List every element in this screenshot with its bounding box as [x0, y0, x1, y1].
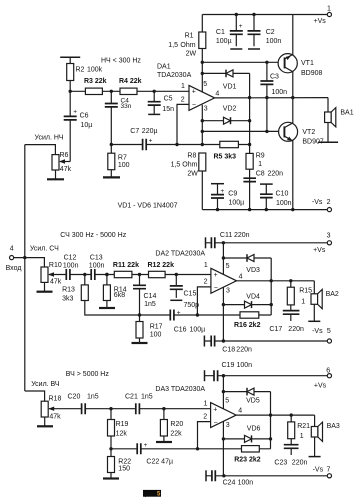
- resistor R15: [290, 281, 292, 311]
- terminal 6: [327, 374, 331, 378]
- node pin2 ch3: [196, 447, 199, 450]
- svg-text:-Vs: -Vs: [312, 328, 323, 335]
- diode VD4: [222, 303, 225, 306]
- svg-text:C12: C12: [64, 255, 77, 262]
- svg-text:C9: C9: [228, 190, 237, 197]
- svg-text:12k: 12k: [116, 430, 128, 437]
- svg-text:100n: 100n: [276, 200, 292, 207]
- svg-text:C10: C10: [276, 191, 289, 198]
- wire main LF: [70, 90, 189, 92]
- speaker BA1: [327, 98, 329, 143]
- wire pin5 ch3: [222, 376, 224, 409]
- wire pin3 vertical: [201, 105, 203, 145]
- svg-text:100n: 100n: [63, 262, 79, 269]
- svg-text:VT2: VT2: [302, 129, 315, 136]
- svg-text:VD5: VD5: [246, 398, 260, 405]
- node pin2 ch2: [196, 313, 199, 316]
- svg-text:R13: R13: [62, 286, 75, 293]
- svg-text:2: 2: [181, 96, 185, 103]
- node pin5 branch VT1 base: [201, 61, 204, 64]
- svg-text:1,5: 1,5: [168, 42, 178, 49]
- wire wiper up: [69, 120, 71, 162]
- wire output DA3: [236, 414, 314, 416]
- wire pin5 ch2: [222, 243, 224, 275]
- svg-text:R1: R1: [185, 32, 194, 39]
- capacitor C8: [243, 178, 256, 181]
- svg-text:C11: C11: [220, 232, 232, 239]
- svg-text:R18: R18: [49, 396, 62, 403]
- node C15 top: [175, 273, 178, 276]
- ground R6: [55, 170, 57, 179]
- svg-text:10µ: 10µ: [81, 122, 93, 129]
- svg-text:НЧ < 300 Hz: НЧ < 300 Hz: [101, 57, 141, 64]
- resistor R14: [105, 273, 108, 276]
- top rail ch2 with C11: [205, 237, 207, 248]
- svg-text:C8: C8: [256, 170, 265, 177]
- svg-text:+Vs: +Vs: [313, 247, 326, 254]
- svg-text:2W: 2W: [186, 51, 197, 58]
- svg-text:VD4: VD4: [246, 294, 260, 301]
- svg-text:4: 4: [215, 91, 219, 98]
- svg-text:VD1 - VD6 1N4007: VD1 - VD6 1N4007: [118, 202, 178, 209]
- potentiometer R18: [41, 401, 48, 417]
- svg-text:R15: R15: [299, 288, 312, 295]
- terminal 4 input: [10, 256, 14, 260]
- node C14 top: [138, 273, 141, 276]
- wire VT2 base row: [202, 130, 283, 132]
- svg-text:1n5: 1n5: [144, 301, 156, 308]
- svg-text:VD1: VD1: [223, 83, 237, 90]
- svg-text:22k: 22k: [170, 430, 182, 437]
- capacitor C21: [136, 403, 140, 414]
- svg-text:VD6: VD6: [247, 426, 261, 433]
- svg-text:R16 2k2: R16 2k2: [234, 322, 261, 329]
- resistor R23: [242, 446, 260, 452]
- svg-text:+: +: [213, 407, 217, 414]
- capacitor C17: [283, 311, 300, 315]
- svg-text:-Vs: -Vs: [312, 199, 323, 206]
- resistor R19: [109, 407, 112, 410]
- op-amp DA3: [211, 403, 237, 428]
- svg-text:C15: C15: [184, 291, 197, 298]
- svg-text:7: 7: [327, 467, 331, 474]
- node pin5 branch VD1: [201, 72, 204, 75]
- resistor R2: [60, 56, 80, 58]
- svg-text:Усил. ВЧ: Усил. ВЧ: [31, 381, 60, 388]
- svg-text:+: +: [177, 309, 181, 316]
- svg-text:+: +: [149, 138, 153, 145]
- resistor R20: [162, 407, 165, 410]
- svg-text:6k8: 6k8: [114, 292, 125, 299]
- svg-text:+Vs: +Vs: [314, 18, 327, 25]
- svg-text:R8: R8: [187, 153, 196, 160]
- capacitor C23: [284, 445, 299, 449]
- transistor VT2: [279, 122, 298, 141]
- svg-text:DA2 TDA2030A: DA2 TDA2030A: [155, 251, 205, 258]
- diode VD6: [222, 437, 225, 440]
- svg-text:C22 47µ: C22 47µ: [146, 458, 173, 465]
- svg-text:−: −: [214, 419, 218, 426]
- svg-text:33n: 33n: [121, 103, 132, 110]
- svg-text:220n: 220n: [234, 232, 250, 239]
- resistor R8: [201, 171, 203, 210]
- wire pin5 vertical + R1: [201, 15, 203, 92]
- svg-text:R11 22k: R11 22k: [113, 262, 139, 269]
- svg-text:C1: C1: [216, 29, 225, 36]
- svg-text:+: +: [144, 442, 148, 449]
- svg-text:+: +: [220, 188, 224, 195]
- wire output DA2: [237, 280, 315, 282]
- figure badge рис.5: [143, 490, 161, 497]
- svg-text:1: 1: [204, 262, 208, 269]
- diode VD2: [202, 120, 249, 122]
- svg-text:Вход: Вход: [6, 265, 22, 272]
- svg-text:3: 3: [226, 288, 230, 295]
- svg-text:C2: C2: [266, 29, 275, 36]
- wire VD5 corner down: [270, 392, 272, 449]
- svg-text:C16: C16: [174, 327, 187, 334]
- svg-text:+: +: [239, 23, 243, 30]
- wire bottom rail ch1: [202, 209, 327, 211]
- terminal 7: [327, 474, 331, 478]
- resistor R4: [120, 88, 137, 94]
- wire lower ch2: [140, 314, 272, 316]
- svg-text:47k: 47k: [60, 166, 72, 173]
- svg-text:5: 5: [225, 397, 229, 404]
- op-amp DA2: [211, 268, 237, 293]
- svg-text:Ohm: Ohm: [180, 42, 195, 49]
- wire lower HF: [111, 448, 271, 450]
- svg-text:C5: C5: [164, 95, 173, 102]
- resistor R5: [220, 141, 239, 147]
- node C5 top: [153, 90, 156, 93]
- resistor R7: [110, 145, 112, 178]
- capacitor C9: [211, 183, 224, 185]
- svg-text:4: 4: [238, 408, 242, 415]
- svg-text:R22: R22: [118, 458, 131, 465]
- svg-text:4: 4: [239, 273, 243, 280]
- svg-text:+: +: [73, 108, 77, 115]
- wire VT1 base: [202, 61, 283, 63]
- speaker BA2: [313, 281, 315, 322]
- svg-text:R2: R2: [76, 67, 85, 74]
- svg-text:VD2: VD2: [223, 105, 237, 112]
- svg-text:C23: C23: [274, 460, 287, 467]
- terminal 5: [327, 339, 331, 343]
- terminal 2: [327, 208, 331, 212]
- capacitor C20: [82, 403, 86, 414]
- svg-text:220n: 220n: [268, 170, 284, 177]
- svg-text:1: 1: [204, 400, 208, 407]
- svg-text:ВЧ > 5000 Hz: ВЧ > 5000 Hz: [66, 371, 110, 378]
- svg-text:R21: R21: [297, 423, 310, 430]
- capacitor C5: [153, 91, 155, 114]
- svg-text:100: 100: [118, 162, 130, 169]
- svg-text:1,5 Ohm: 1,5 Ohm: [171, 162, 198, 169]
- potentiometer R10: [41, 267, 48, 282]
- potentiometer R6: [52, 155, 59, 170]
- svg-text:+: +: [214, 272, 218, 279]
- wire bus to R18: [25, 391, 45, 401]
- svg-text:100n: 100n: [89, 262, 105, 269]
- svg-text:220µ: 220µ: [142, 128, 158, 135]
- svg-text:R3 22k: R3 22k: [84, 78, 107, 85]
- svg-text:47k: 47k: [49, 413, 61, 420]
- svg-text:+: +: [192, 89, 196, 96]
- capacitor C14: [139, 275, 141, 316]
- top rail ch3 with C19: [204, 370, 206, 381]
- resistor R22: [110, 449, 112, 479]
- speaker BA3: [314, 415, 316, 457]
- terminal 3: [327, 241, 331, 245]
- svg-text:R5 3k3: R5 3k3: [214, 154, 237, 161]
- svg-text:3: 3: [226, 422, 230, 429]
- resistor R9: [246, 153, 253, 169]
- svg-text:100µ: 100µ: [190, 327, 206, 334]
- svg-text:Усил. НЧ: Усил. НЧ: [35, 134, 64, 141]
- resistor R11: [114, 271, 132, 277]
- svg-text:DA3 TDA2030A: DA3 TDA2030A: [155, 386, 205, 393]
- resistor R12: [149, 271, 166, 277]
- capacitor C12: [66, 269, 70, 280]
- svg-text:2: 2: [204, 279, 208, 286]
- svg-text:5: 5: [203, 81, 207, 88]
- svg-text:TDA2030A: TDA2030A: [157, 72, 192, 79]
- bottom rail ch3 with C24: [205, 470, 207, 481]
- wire input bus vertical: [24, 145, 26, 391]
- capacitor C16: [170, 310, 174, 321]
- svg-text:−: −: [192, 102, 196, 109]
- svg-text:R17: R17: [150, 324, 163, 331]
- svg-text:4: 4: [10, 245, 14, 252]
- svg-text:R12 22k: R12 22k: [148, 262, 175, 269]
- wire main HF: [66, 408, 211, 410]
- wire usil NCh horizontal to R6: [25, 145, 56, 155]
- capacitor C7: [143, 139, 147, 150]
- capacitor C1: [235, 13, 238, 16]
- resistor R13: [85, 275, 140, 316]
- svg-text:C18: C18: [222, 347, 235, 354]
- svg-text:C19: C19: [222, 362, 235, 369]
- svg-text:100n: 100n: [237, 362, 253, 369]
- svg-text:R4 22k: R4 22k: [119, 78, 142, 85]
- svg-text:VD3: VD3: [246, 267, 260, 274]
- svg-text:BD908: BD908: [301, 70, 323, 77]
- svg-text:C20: C20: [68, 394, 81, 401]
- svg-text:R23 2k2: R23 2k2: [234, 456, 261, 463]
- svg-text:220n: 220n: [236, 347, 252, 354]
- svg-text:5: 5: [226, 263, 230, 270]
- svg-text:100: 100: [150, 332, 162, 339]
- wire main MF: [70, 274, 211, 276]
- svg-text:220n: 220n: [292, 460, 308, 467]
- svg-text:C21: C21: [125, 394, 138, 401]
- svg-text:VT1: VT1: [301, 60, 314, 67]
- capacitor C22: [137, 443, 141, 454]
- wire VD3 corner down: [270, 258, 272, 315]
- svg-text:100k: 100k: [87, 67, 103, 74]
- capacitor C15: [175, 275, 177, 298]
- svg-text:220n: 220n: [288, 326, 304, 333]
- terminal 1: [327, 12, 331, 16]
- svg-text:C17: C17: [269, 326, 282, 333]
- svg-text:1n5: 1n5: [141, 394, 153, 401]
- wire feedback row: [111, 144, 249, 146]
- svg-text:Усил. СЧ: Усил. СЧ: [30, 245, 59, 252]
- svg-text:рис.5: рис.5: [145, 492, 161, 498]
- capacitor C4: [110, 91, 112, 144]
- wire output DA1: [215, 97, 328, 99]
- svg-text:C3: C3: [270, 73, 279, 80]
- wire input to bus: [14, 258, 45, 267]
- svg-text:BA1: BA1: [340, 110, 353, 117]
- node lower wire ch2: [138, 313, 141, 316]
- svg-text:47k: 47k: [50, 278, 62, 285]
- svg-text:3k3: 3k3: [62, 296, 73, 303]
- svg-text:6: 6: [326, 367, 330, 374]
- diode VD3: [222, 256, 225, 259]
- svg-text:R6: R6: [60, 152, 69, 159]
- svg-text:100µ: 100µ: [216, 38, 232, 45]
- svg-text:100µ: 100µ: [229, 199, 245, 206]
- svg-text:C7: C7: [130, 128, 139, 135]
- node main LF wire: [69, 90, 72, 93]
- resistor R21: [290, 415, 292, 445]
- capacitor C3: [266, 62, 268, 131]
- svg-text:100n: 100n: [266, 38, 282, 45]
- svg-text:1: 1: [300, 433, 304, 440]
- resistor R16: [240, 312, 259, 318]
- svg-text:100n: 100n: [238, 480, 254, 487]
- svg-text:R19: R19: [116, 421, 129, 428]
- resistor R17: [139, 315, 141, 343]
- svg-text:C14: C14: [144, 293, 157, 300]
- svg-text:2: 2: [203, 414, 207, 421]
- wire top rail: [202, 14, 327, 16]
- svg-text:DA1: DA1: [157, 63, 171, 70]
- node C4 top: [110, 90, 113, 93]
- transistor VT1: [278, 54, 297, 73]
- op-amp DA1: [189, 85, 215, 110]
- svg-text:3: 3: [327, 233, 331, 240]
- bottom rail ch2 with C18: [203, 336, 205, 347]
- capacitor C2: [252, 13, 255, 16]
- diode VD1: [202, 72, 249, 74]
- wire VD1 right corner down: [249, 73, 251, 209]
- svg-text:2W: 2W: [187, 170, 198, 177]
- svg-text:C24: C24: [223, 480, 236, 487]
- svg-text:100n: 100n: [272, 89, 288, 96]
- svg-text:R7: R7: [118, 155, 127, 162]
- svg-text:СЧ 300 Hz - 5000 Hz: СЧ 300 Hz - 5000 Hz: [60, 232, 126, 239]
- resistor R3: [85, 88, 102, 94]
- wire pin3 ch3: [222, 422, 224, 476]
- svg-text:150: 150: [118, 466, 130, 473]
- svg-text:1: 1: [301, 299, 305, 306]
- svg-text:R20: R20: [170, 421, 183, 428]
- ground R18: [44, 417, 46, 426]
- svg-text:BA2: BA2: [326, 291, 339, 298]
- svg-text:BA3: BA3: [327, 423, 340, 430]
- svg-text:R10: R10: [49, 262, 62, 269]
- svg-text:1: 1: [181, 83, 185, 90]
- svg-text:−: −: [214, 285, 218, 292]
- svg-text:R9: R9: [256, 153, 265, 160]
- svg-text:2: 2: [327, 199, 331, 206]
- svg-text:C6: C6: [80, 112, 89, 119]
- resistor R1: [199, 32, 206, 49]
- svg-text:1: 1: [327, 5, 331, 12]
- capacitor C10: [260, 183, 273, 185]
- svg-text:3: 3: [204, 105, 208, 112]
- svg-text:-Vs: -Vs: [313, 467, 324, 474]
- svg-text:5: 5: [327, 328, 331, 335]
- svg-text:C13: C13: [90, 255, 103, 262]
- diode VD5: [222, 390, 225, 393]
- capacitor C13: [91, 269, 95, 280]
- wire pin2 to feedback: [177, 104, 189, 144]
- svg-text:15n: 15n: [162, 106, 174, 113]
- svg-text:1: 1: [258, 161, 262, 168]
- svg-text:+Vs: +Vs: [314, 383, 327, 390]
- capacitor C6: [64, 116, 77, 120]
- ground R10: [44, 282, 46, 291]
- svg-text:1n5: 1n5: [87, 394, 99, 401]
- wire pin3 ch2: [222, 287, 224, 341]
